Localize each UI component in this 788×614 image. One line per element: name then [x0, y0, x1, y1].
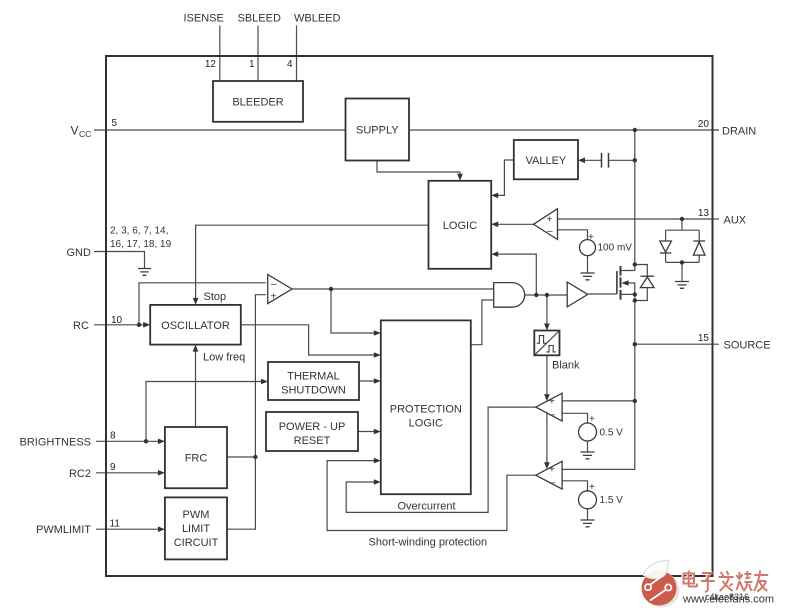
svg-text:RC: RC: [73, 320, 89, 332]
wire LOGIC stop line to OSCILLATOR: [196, 225, 429, 303]
svg-text:Overcurrent: Overcurrent: [398, 501, 456, 513]
wire buffer output to MOSFET gate: [588, 293, 617, 295]
node capacitor junction: [633, 158, 637, 162]
svg-text:CC: CC: [79, 129, 91, 139]
wire OSCILLATOR output to PROTECTION: [241, 325, 379, 355]
svg-text:+: +: [589, 482, 595, 493]
arrow 100mV comparator into LOGIC right: [491, 222, 498, 228]
svg-text:5: 5: [112, 118, 118, 129]
wire short-winding comparator minus input: [562, 481, 587, 491]
node FRC output junction: [253, 455, 257, 459]
node AND output junction A: [534, 293, 538, 297]
wire Blank output to overcurrent comparator: [546, 355, 548, 399]
node SOURCE rail junction: [633, 342, 637, 346]
node BRIGHTNESS junction: [144, 439, 148, 443]
svg-text:PROTECTION: PROTECTION: [390, 404, 462, 416]
wire SOURCE rail: [635, 343, 719, 345]
svg-text:+: +: [547, 215, 553, 226]
svg-text:1.5 V: 1.5 V: [600, 495, 624, 506]
svg-text:FRC: FRC: [185, 453, 208, 465]
svg-text:Stop: Stop: [204, 291, 227, 303]
svg-text:AUX: AUX: [724, 215, 747, 227]
svg-text:PWMLIMIT: PWMLIMIT: [36, 524, 91, 536]
svg-text:SOURCE: SOURCE: [724, 340, 771, 352]
wire RC pin lead: [94, 324, 149, 326]
svg-text:ISENSE: ISENSE: [184, 13, 224, 25]
wire PWMLIMIT pin lead: [96, 528, 163, 530]
wire GND pin lead: [94, 252, 145, 269]
svg-text:9: 9: [110, 462, 116, 473]
WATERMARK-START: [642, 560, 680, 608]
block PROTECTION LOGIC: [381, 320, 471, 494]
wire comparator chain link: [546, 413, 548, 467]
svg-text:8: 8: [110, 431, 116, 442]
arrow comparator branch into PROTECTION: [374, 330, 381, 336]
svg-text:10: 10: [111, 315, 123, 326]
wire ISENSE pin lead: [219, 26, 221, 82]
arrow overcurrent into PROTECTION: [374, 479, 381, 485]
ground for 0.5 V source: [581, 452, 595, 459]
svg-text:BLEEDER: BLEEDER: [232, 97, 283, 109]
svg-text:DRAIN: DRAIN: [722, 126, 756, 138]
wire overcurrent comparator plus input: [562, 400, 635, 402]
ground for GND pin: [138, 269, 151, 276]
svg-text:100 mV: 100 mV: [598, 243, 633, 254]
wire 100mV comparator minus input: [558, 230, 588, 240]
wire VALLEY output to LOGIC right: [493, 160, 514, 195]
wire overcurrent loop to PROTECTION: [346, 407, 536, 512]
arrow AND branch into Blank top: [544, 324, 550, 331]
svg-text:15: 15: [698, 333, 710, 344]
svg-text:–: –: [550, 410, 556, 421]
ground for AUX clamp: [675, 282, 689, 289]
wire drain vertical branch: [621, 130, 635, 271]
arrow chain into short-winding comparator: [544, 462, 550, 469]
wire THERMAL SHUTDOWN output: [359, 380, 379, 382]
node AND output junction B: [545, 293, 549, 297]
wire capacitor left lead to VALLEY: [580, 159, 602, 161]
wire AND output branch to Blank: [546, 295, 548, 329]
svg-text:SBLEED: SBLEED: [238, 13, 281, 25]
transistor Q1 power MOSFET: [616, 271, 618, 294]
arrow MOSFET body (points left): [622, 280, 629, 286]
voltage source V1 100 mV: [580, 240, 596, 256]
svg-text:SUPPLY: SUPPLY: [356, 125, 399, 137]
svg-text:+: +: [589, 414, 595, 425]
comparator U-osc (points right): [268, 275, 292, 304]
svg-text:Short-winding protection: Short-winding protection: [369, 537, 488, 549]
comparator U-oc 0.5V (points left): [536, 393, 562, 421]
svg-text:VALLEY: VALLEY: [526, 155, 567, 167]
svg-text:OSCILLATOR: OSCILLATOR: [161, 320, 230, 332]
block SUPPLY: [346, 99, 410, 161]
svg-text:–: –: [550, 478, 556, 489]
wire comparator branch to PROTECTION: [331, 289, 379, 333]
wire oscillator comparator output to AND gate: [292, 288, 494, 290]
wire clamp right branch: [698, 230, 700, 262]
arrow capacitor into VALLEY right: [578, 158, 585, 164]
svg-text:LOGIC: LOGIC: [443, 220, 477, 232]
svg-text:CIRCUIT: CIRCUIT: [174, 537, 219, 549]
arrow supply into LOGIC top: [457, 174, 463, 181]
arrow Low freq into OSCILLATOR bottom: [193, 345, 199, 352]
block THERMAL SHUTDOWN: [268, 362, 359, 400]
node oscillator comparator output junction: [329, 287, 333, 291]
svg-text:V: V: [71, 124, 79, 138]
wire FRC plus rail to comparator: [227, 295, 266, 530]
svg-text:POWER - UP: POWER - UP: [279, 421, 346, 433]
diode D2 clamp right (pointing up): [693, 242, 705, 255]
wire POWER-UP RESET output: [358, 431, 379, 433]
svg-text:13: 13: [698, 208, 710, 219]
wire short-winding loop to PROTECTION: [327, 461, 536, 531]
wire 1.5V source ground stub: [587, 509, 589, 520]
wire clamp bottom rail: [666, 261, 700, 263]
buffer U-drv (points right): [567, 282, 588, 307]
arrow oscillator output into PROTECTION: [374, 352, 381, 358]
IC outer boundary box: [106, 56, 713, 576]
wire FRC output: [227, 456, 255, 458]
ground for 1.5 V source: [581, 520, 595, 527]
svg-text:LOGIC: LOGIC: [409, 418, 443, 430]
arrow Stop into OSCILLATOR top: [193, 298, 199, 305]
svg-text:RESET: RESET: [294, 435, 331, 447]
node overcurrent plus junction: [633, 399, 637, 403]
wire AUX clamp stub: [681, 219, 683, 230]
wire overcurrent comparator minus input: [562, 413, 587, 423]
arrow RC2 into FRC: [158, 470, 165, 476]
svg-text:11: 11: [110, 519, 121, 530]
wire AND output branch to LOGIC: [493, 254, 536, 295]
node MOSFET source junction: [633, 292, 637, 296]
svg-text:BRIGHTNESS: BRIGHTNESS: [19, 437, 91, 449]
svg-text:4: 4: [287, 59, 293, 70]
block FRC: [165, 427, 227, 488]
ground for 100 mV source: [581, 273, 595, 280]
svg-text:16, 17, 18, 19: 16, 17, 18, 19: [110, 239, 172, 250]
wire VCC-to-DRAIN rail: [94, 129, 719, 131]
diode D3 MOSFET body diode (pointing up): [641, 277, 655, 288]
comparator U-sw 1.5V (points left): [536, 461, 562, 489]
voltage source V2 0.5 V: [579, 423, 597, 441]
block LOGIC: [429, 181, 492, 269]
block BLEEDER: [213, 81, 303, 122]
wire RC branch to comparator minus: [139, 283, 266, 325]
wire SBLEED pin lead: [257, 26, 259, 82]
node clamp ground junction: [680, 260, 684, 264]
wire BRIGHTNESS branch to THERMAL SHUTDOWN: [146, 382, 266, 442]
arrow valley into LOGIC right: [491, 193, 498, 199]
block VALLEY: [514, 140, 578, 179]
wire MOSFET body-diode branch: [635, 265, 648, 301]
arrow PWMLIMIT into PWM LIMIT CIRCUIT: [158, 526, 165, 532]
wire 0.5V source ground stub: [587, 441, 589, 452]
svg-text:GND: GND: [67, 247, 92, 259]
svg-text:LIMIT: LIMIT: [182, 523, 210, 535]
svg-text:12: 12: [205, 59, 217, 70]
capacitor C valley sense: [602, 153, 609, 168]
wire WBLEED pin lead: [296, 26, 298, 82]
block POWER-UP RESET: [266, 412, 358, 451]
svg-text:+: +: [549, 465, 555, 476]
svg-text:20: 20: [698, 119, 710, 130]
arrow RC into OSCILLATOR left: [143, 322, 150, 328]
arrow thermal into PROTECTION: [374, 378, 381, 384]
svg-text:Low freq: Low freq: [203, 352, 245, 364]
svg-text:WBLEED: WBLEED: [294, 13, 341, 25]
wire 100mV comparator output to LOGIC: [493, 223, 534, 225]
block PWM LIMIT CIRCUIT: [165, 497, 227, 559]
wire BRIGHTNESS pin lead: [96, 440, 163, 442]
wire AND gate output to buffer: [525, 294, 568, 296]
arrow BRIGHTNESS into FRC: [158, 439, 165, 445]
wire MOSFET body lead: [623, 283, 635, 294]
svg-text:1: 1: [249, 59, 255, 70]
Blank box diagonal and pulse glyphs: [534, 331, 559, 356]
svg-text:+: +: [549, 397, 555, 408]
svg-text:+: +: [588, 232, 594, 243]
wire capacitor right lead to drain branch: [609, 159, 635, 161]
arrow into THERMAL SHUTDOWN left: [261, 379, 268, 385]
svg-text:THERMAL: THERMAL: [287, 371, 340, 383]
wire clamp left branch: [665, 230, 667, 262]
arrow power-up reset into PROTECTION: [374, 429, 381, 435]
wire AUX rail: [558, 218, 720, 220]
comparator U-valley 100mV (points left): [534, 209, 558, 240]
diode D1 clamp left (pointing down): [660, 241, 672, 252]
svg-text:–: –: [271, 279, 277, 290]
wire RC2 pin lead: [96, 472, 163, 474]
node drain rail junction: [633, 128, 637, 132]
svg-text:–: –: [547, 226, 553, 237]
wire DRAIN pin lead: [713, 129, 720, 131]
svg-text:c4kae8316: c4kae8316: [705, 592, 749, 602]
wire clamp ground stub: [681, 262, 683, 281]
arrow AND branch into LOGIC right: [491, 251, 498, 257]
wire MOSFET source branch: [562, 294, 635, 469]
node RC junction: [137, 323, 141, 327]
node body diode junction: [633, 298, 637, 302]
wire SUPPLY output to LOGIC top: [377, 161, 460, 180]
svg-text:SHUTDOWN: SHUTDOWN: [281, 385, 346, 397]
block OSCILLATOR: [150, 305, 241, 345]
arrow Blank into overcurrent comparator: [544, 394, 550, 401]
AND gate U-and: [494, 283, 525, 308]
svg-text:+: +: [271, 292, 277, 303]
voltage source V3 1.5 V: [579, 491, 597, 509]
wire 100mV source ground stub: [587, 256, 589, 273]
svg-text:2, 3, 6, 7, 14,: 2, 3, 6, 7, 14,: [110, 226, 168, 237]
wire Low-freq FRC to OSCILLATOR: [195, 346, 197, 427]
arrow short-winding into PROTECTION: [374, 458, 381, 464]
node MOSFET drain junction: [633, 262, 637, 266]
wire clamp top rail: [666, 229, 700, 231]
wire PROTECTION output to AND gate: [471, 300, 494, 345]
block Blank pulse-shaper: [534, 331, 559, 356]
svg-text:PWM: PWM: [183, 509, 210, 521]
svg-text:Blank: Blank: [552, 360, 580, 372]
node AUX junction: [680, 217, 684, 221]
svg-text:RC2: RC2: [69, 468, 91, 480]
svg-text:0.5 V: 0.5 V: [600, 428, 624, 439]
